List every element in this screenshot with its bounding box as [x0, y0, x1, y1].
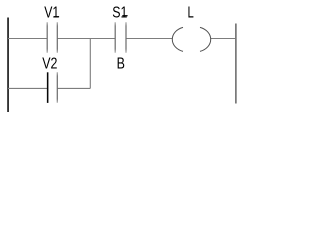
- svg-text:L: L: [188, 5, 194, 22]
- svg-text:B: B: [117, 56, 125, 73]
- svg-text:V2: V2: [42, 56, 57, 73]
- svg-text:S1: S1: [112, 4, 127, 21]
- svg-text:V1: V1: [44, 5, 59, 22]
